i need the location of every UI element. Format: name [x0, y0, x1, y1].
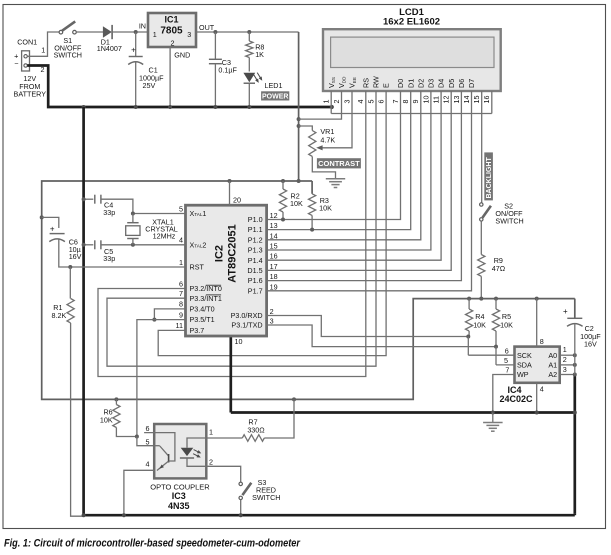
- svg-text:16V: 16V: [584, 340, 597, 349]
- svg-text:AT89C2051: AT89C2051: [227, 224, 239, 283]
- svg-text:3: 3: [342, 100, 351, 104]
- svg-text:OUT: OUT: [199, 23, 215, 32]
- svg-text:WP: WP: [517, 370, 529, 379]
- svg-text:IN: IN: [139, 22, 146, 31]
- svg-text:2: 2: [209, 458, 213, 467]
- svg-text:SWITCH: SWITCH: [495, 217, 523, 226]
- svg-text:E: E: [382, 83, 391, 88]
- svg-text:CON1: CON1: [17, 37, 37, 46]
- svg-text:13: 13: [270, 221, 278, 230]
- svg-text:A1: A1: [548, 361, 557, 370]
- svg-text:11: 11: [176, 321, 183, 330]
- svg-text:4: 4: [179, 236, 183, 245]
- svg-text:P3.5/T1: P3.5/T1: [190, 315, 215, 324]
- svg-text:16: 16: [270, 252, 278, 261]
- svg-text:P1.2: P1.2: [248, 235, 263, 244]
- svg-text:16x2 EL1602: 16x2 EL1602: [383, 16, 440, 27]
- svg-text:P1.1: P1.1: [248, 225, 263, 234]
- svg-text:12: 12: [270, 211, 278, 220]
- svg-text:4: 4: [146, 460, 150, 469]
- svg-text:IC1: IC1: [164, 15, 178, 25]
- svg-text:47Ω: 47Ω: [492, 264, 506, 273]
- svg-text:12: 12: [442, 96, 451, 104]
- svg-text:8: 8: [540, 337, 544, 346]
- svg-text:P1.4: P1.4: [248, 256, 263, 265]
- svg-text:12MHz: 12MHz: [153, 232, 176, 241]
- svg-text:25V: 25V: [143, 81, 156, 90]
- svg-text:CONTRAST: CONTRAST: [318, 159, 360, 168]
- svg-text:−: −: [14, 59, 18, 68]
- svg-text:1: 1: [41, 46, 45, 55]
- svg-text:D2: D2: [416, 79, 425, 88]
- svg-text:14: 14: [462, 96, 471, 104]
- svg-text:18: 18: [270, 272, 278, 281]
- svg-text:9: 9: [411, 100, 420, 104]
- svg-text:1: 1: [179, 258, 183, 267]
- svg-text:10K: 10K: [100, 416, 113, 425]
- svg-text:LED1: LED1: [265, 81, 283, 90]
- svg-text:1: 1: [153, 30, 157, 39]
- svg-text:D3: D3: [427, 79, 436, 88]
- svg-text:9: 9: [179, 310, 183, 319]
- svg-text:5: 5: [179, 204, 183, 213]
- svg-text:16V: 16V: [69, 252, 82, 261]
- svg-text:P1.0: P1.0: [248, 215, 263, 224]
- svg-text:1N4007: 1N4007: [97, 44, 122, 53]
- svg-text:330Ω: 330Ω: [247, 426, 265, 435]
- svg-text:+: +: [50, 225, 55, 234]
- svg-text:D1.5: D1.5: [247, 266, 262, 275]
- svg-text:BATTERY: BATTERY: [14, 90, 47, 99]
- svg-text:2: 2: [563, 355, 567, 364]
- svg-text:13: 13: [452, 96, 461, 104]
- svg-text:7: 7: [179, 289, 183, 298]
- svg-text:11: 11: [432, 96, 441, 103]
- svg-text:3: 3: [187, 30, 191, 39]
- svg-text:D0: D0: [396, 79, 405, 88]
- svg-text:7: 7: [391, 100, 400, 104]
- svg-text:15: 15: [270, 242, 278, 251]
- svg-text:4: 4: [540, 385, 544, 394]
- svg-text:P3.4/T0: P3.4/T0: [190, 305, 215, 314]
- svg-text:24C02C: 24C02C: [499, 394, 533, 404]
- svg-text:5: 5: [366, 100, 375, 104]
- svg-text:1: 1: [322, 100, 331, 104]
- svg-text:D7: D7: [467, 79, 476, 88]
- svg-text:P3.0/RXD: P3.0/RXD: [231, 311, 263, 320]
- svg-text:1: 1: [209, 428, 213, 437]
- svg-text:4.7K: 4.7K: [320, 135, 335, 144]
- svg-text:+: +: [131, 46, 136, 55]
- svg-text:3: 3: [563, 365, 567, 374]
- svg-text:A2: A2: [548, 370, 557, 379]
- svg-text:10K: 10K: [290, 199, 303, 208]
- svg-text:POWER: POWER: [262, 94, 288, 101]
- svg-text:8.2K: 8.2K: [52, 311, 67, 320]
- svg-text:16: 16: [482, 96, 491, 104]
- svg-text:A0: A0: [548, 351, 557, 360]
- svg-text:IC3: IC3: [172, 491, 186, 501]
- svg-text:6: 6: [146, 424, 150, 433]
- svg-text:2: 2: [270, 307, 274, 316]
- svg-text:D6: D6: [457, 79, 466, 88]
- svg-text:6: 6: [179, 279, 183, 288]
- svg-text:17: 17: [270, 262, 278, 271]
- svg-text:1K: 1K: [255, 50, 264, 59]
- svg-text:SWITCH: SWITCH: [54, 50, 82, 59]
- svg-text:D5: D5: [447, 79, 456, 88]
- svg-text:P1.6: P1.6: [248, 276, 263, 285]
- svg-text:1: 1: [563, 345, 567, 354]
- svg-text:6: 6: [505, 346, 509, 355]
- svg-text:IC2: IC2: [214, 245, 226, 262]
- svg-text:10K: 10K: [500, 321, 513, 330]
- svg-text:RST: RST: [190, 263, 205, 272]
- svg-text:Fig. 1: Circuit of microcontro: Fig. 1: Circuit of microcontroller-based…: [4, 537, 301, 549]
- svg-text:10K: 10K: [319, 204, 332, 213]
- svg-text:D4: D4: [437, 79, 446, 88]
- svg-text:P3.7: P3.7: [190, 326, 205, 335]
- svg-text:33p: 33p: [103, 254, 115, 263]
- svg-text:2: 2: [171, 39, 175, 48]
- svg-text:P1.7: P1.7: [248, 286, 263, 295]
- svg-text:0.1µF: 0.1µF: [218, 65, 237, 74]
- svg-text:8: 8: [401, 100, 410, 104]
- svg-text:SWITCH: SWITCH: [252, 493, 280, 502]
- svg-text:P3.1/TXD: P3.1/TXD: [231, 321, 262, 330]
- svg-text:19: 19: [270, 282, 278, 291]
- svg-text:BACKLIGHT: BACKLIGHT: [486, 157, 493, 199]
- svg-text:2: 2: [332, 100, 341, 104]
- svg-text:3: 3: [270, 317, 274, 326]
- svg-text:7805: 7805: [160, 26, 183, 37]
- svg-text:5: 5: [504, 356, 508, 365]
- svg-text:RS: RS: [361, 78, 370, 88]
- svg-text:5: 5: [146, 438, 150, 447]
- svg-text:6: 6: [377, 100, 386, 104]
- svg-text:15: 15: [472, 96, 481, 104]
- svg-text:10: 10: [421, 96, 430, 104]
- svg-text:GND: GND: [174, 51, 190, 60]
- svg-text:4N35: 4N35: [168, 501, 190, 511]
- svg-text:10: 10: [235, 337, 243, 346]
- svg-text:P1.3: P1.3: [248, 246, 263, 255]
- svg-text:14: 14: [270, 231, 278, 240]
- svg-text:OPTO COUPLER: OPTO COUPLER: [150, 482, 210, 491]
- svg-text:7: 7: [505, 366, 509, 375]
- svg-text:RW: RW: [372, 76, 381, 88]
- svg-text:SDA: SDA: [517, 361, 532, 370]
- svg-text:+: +: [563, 307, 568, 316]
- svg-text:4: 4: [356, 100, 365, 104]
- svg-text:D1: D1: [406, 79, 415, 88]
- svg-text:20: 20: [233, 196, 241, 205]
- svg-text:33p: 33p: [103, 208, 115, 217]
- svg-text:10K: 10K: [473, 321, 486, 330]
- svg-text:8: 8: [179, 300, 183, 309]
- svg-text:SCK: SCK: [517, 351, 532, 360]
